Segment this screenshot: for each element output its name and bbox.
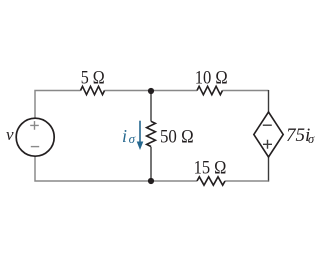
resistor 15 ohm bbox=[197, 177, 225, 185]
label 75 i sigma bbox=[286, 125, 315, 146]
svg-text:σ: σ bbox=[308, 132, 315, 146]
resistor 10 ohm bbox=[197, 86, 222, 94]
voltage source v bbox=[16, 118, 54, 156]
label 5 ohm bbox=[81, 68, 105, 89]
wire right-bottom lead from dependent source bbox=[268, 157, 270, 182]
svg-text:σ: σ bbox=[129, 131, 136, 146]
label 10 ohm bbox=[195, 68, 228, 89]
svg-text:i: i bbox=[122, 126, 127, 146]
svg-text:75i: 75i bbox=[286, 125, 310, 146]
wire middle lower lead of 50 ohm resistor bbox=[150, 147, 152, 181]
label 15 ohm bbox=[194, 158, 227, 179]
svg-text:v: v bbox=[6, 125, 14, 144]
svg-text:15 Ω: 15 Ω bbox=[194, 158, 227, 179]
svg-text:50 Ω: 50 Ω bbox=[160, 126, 194, 147]
wire bottom-left from node b to source bbox=[35, 156, 151, 181]
svg-text:5 Ω: 5 Ω bbox=[81, 68, 105, 89]
node a junction dot bbox=[148, 88, 154, 94]
dependent source 75 i sigma bbox=[254, 112, 283, 157]
wire top-middle from 5 ohm resistor to 10 ohm resistor through node a bbox=[105, 90, 198, 92]
resistor 5 ohm bbox=[81, 86, 105, 94]
node b junction dot bbox=[148, 178, 154, 184]
label i sigma bbox=[122, 126, 136, 146]
current arrow i sigma bbox=[137, 121, 144, 150]
wire bottom-right from corner to 15 ohm resistor bbox=[225, 180, 269, 182]
label v bbox=[6, 125, 14, 144]
wire top-right from 10 ohm resistor to corner bbox=[223, 90, 269, 92]
wire bottom-middle from 15 ohm resistor to node b bbox=[151, 180, 197, 182]
label 50 ohm bbox=[160, 126, 194, 147]
resistor 50 ohm bbox=[147, 121, 156, 146]
wire right-top lead into dependent source bbox=[268, 90, 270, 112]
wire middle upper lead of 50 ohm resistor bbox=[150, 91, 152, 121]
svg-text:10 Ω: 10 Ω bbox=[195, 68, 228, 89]
wire top-left from source to 5 ohm resistor bbox=[35, 91, 81, 119]
